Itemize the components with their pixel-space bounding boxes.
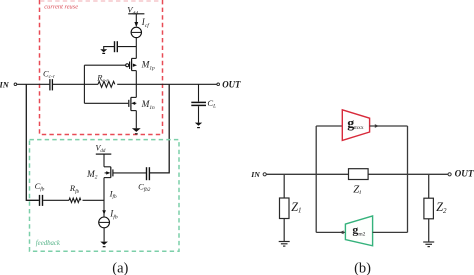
- caption (b): [354, 261, 371, 275]
- wire IN node down to C_fb: [26, 84, 39, 200]
- svg-text:Zi: Zi: [353, 184, 361, 197]
- label g_m2: [352, 223, 365, 238]
- amplifier g_mxx: [342, 110, 369, 141]
- wire M1p drain to output node: [135, 71, 137, 85]
- wire top branch left: [316, 125, 342, 127]
- svg-text:Z2: Z2: [436, 200, 447, 215]
- resistor R_fb: [69, 198, 81, 202]
- wire source node to bypass capacitor: [118, 46, 136, 48]
- label IN: [0, 80, 10, 89]
- label feedback: [36, 240, 61, 247]
- label C_c-r: [43, 68, 56, 80]
- capacitor C_L: [191, 102, 206, 105]
- label V_dd top: [127, 5, 138, 17]
- svg-text:Vdd: Vdd: [96, 143, 106, 154]
- svg-text:M1p: M1p: [141, 61, 155, 72]
- svg-text:Ifb: Ifb: [109, 209, 118, 221]
- resistor R_c-r: [98, 81, 115, 87]
- wire C_fb to R_fb: [43, 199, 69, 201]
- wire M2 gate to C_fb2: [113, 172, 146, 174]
- svg-text:Rc-r: Rc-r: [96, 72, 109, 84]
- label IN b: [250, 170, 260, 179]
- wire M1n source to ground: [135, 111, 137, 129]
- wire R_fb to I_fb node: [83, 199, 105, 201]
- svg-text:Z1: Z1: [291, 200, 301, 215]
- wire output node to M1n drain: [135, 84, 137, 97]
- label I_fb source: [109, 209, 118, 221]
- wire arrow into current source: [102, 210, 106, 215]
- svg-text:Cfb2: Cfb2: [138, 181, 151, 193]
- label C_fb2: [138, 181, 151, 193]
- ground under M1n: [132, 128, 141, 134]
- label M_1p: [141, 61, 155, 72]
- wire left branch vertical: [315, 126, 317, 232]
- wire main line b: [266, 173, 448, 175]
- node OUT terminal b: [448, 173, 451, 176]
- label C_fb: [35, 181, 45, 193]
- transistor M2: [104, 154, 113, 217]
- svg-text:M1n: M1n: [141, 100, 155, 111]
- ground under Z2: [423, 242, 434, 247]
- amplifier g_m2: [345, 216, 372, 246]
- wire OUT line to C_L: [198, 84, 200, 101]
- ground at bypass capacitor: [100, 49, 107, 53]
- wire OUT node down to C_fb2: [150, 84, 169, 173]
- label Z_i: [353, 184, 361, 197]
- node gate rail: [83, 65, 85, 103]
- svg-text:m2: m2: [358, 231, 365, 237]
- wire capacitor to ground: [104, 47, 114, 50]
- transistor M1p: [84, 58, 137, 70]
- wire Z1 branch: [283, 174, 285, 241]
- node IN terminal b: [263, 173, 266, 176]
- svg-text:Cc-r: Cc-r: [43, 68, 56, 80]
- capacitor C_fb: [40, 195, 43, 206]
- transistor M1n: [84, 97, 136, 110]
- wire C_c-r to R_c-r: [53, 83, 98, 85]
- current source I_cf: [131, 27, 141, 37]
- ground under I_fb: [100, 242, 108, 247]
- node OUT terminal: [217, 83, 220, 86]
- svg-text:Cfb: Cfb: [35, 181, 45, 193]
- svg-text:mxx: mxx: [354, 125, 364, 131]
- wire top branch right with arrow: [370, 124, 408, 128]
- wire R_c-r to OUT: [117, 83, 217, 85]
- label current reuse: [44, 3, 78, 10]
- svg-text:CL: CL: [207, 98, 216, 110]
- wire current source to M1p source: [135, 38, 137, 59]
- svg-text:IN: IN: [0, 80, 10, 89]
- svg-text:Rfb: Rfb: [69, 183, 80, 195]
- svg-text:Icf: Icf: [141, 17, 150, 29]
- label M_2: [86, 170, 98, 181]
- svg-text:current reuse: current reuse: [44, 3, 78, 10]
- label g_mxx: [347, 117, 364, 132]
- label Z_1: [291, 200, 301, 215]
- wire C_L to ground: [198, 106, 200, 122]
- wire bottom branch right: [373, 231, 408, 233]
- wire right branch vertical: [407, 126, 409, 232]
- svg-text:feedback: feedback: [36, 240, 61, 247]
- wire Vdd to current source with arrow: [134, 14, 138, 27]
- capacitor bypass at M1p source: [115, 41, 118, 52]
- caption (a): [112, 261, 128, 275]
- wire I_fb to ground: [103, 228, 105, 242]
- current-reuse dashed box: [40, 0, 163, 135]
- impedance Z2: [424, 198, 434, 219]
- wire bottom branch left with arrow: [316, 231, 345, 235]
- impedance Zi: [349, 169, 369, 180]
- node IN terminal: [14, 83, 17, 86]
- label V_dd feedback: [96, 143, 106, 154]
- wire Z2 branch: [428, 174, 430, 242]
- svg-text:(a): (a): [112, 261, 128, 275]
- label OUT: [222, 79, 241, 89]
- wire IN to C_c-r: [17, 83, 50, 85]
- label OUT b: [455, 168, 474, 178]
- svg-text:IN: IN: [250, 170, 260, 179]
- label R_fb: [69, 183, 80, 195]
- svg-text:Ifb: Ifb: [109, 188, 117, 200]
- svg-text:OUT: OUT: [455, 168, 474, 178]
- impedance Z1: [280, 198, 290, 219]
- svg-text:M2: M2: [86, 170, 98, 181]
- svg-text:OUT: OUT: [222, 79, 241, 89]
- label I_fb wire current: [109, 188, 117, 200]
- supply V_dd (top): [128, 13, 144, 15]
- label M_1n: [141, 100, 155, 111]
- current source I_fb: [99, 217, 110, 228]
- capacitor C_fb2: [147, 167, 150, 180]
- ground under C_L: [195, 123, 202, 128]
- capacitor C_c-r: [50, 79, 53, 90]
- feedback dashed box: [30, 140, 180, 252]
- svg-text:(b): (b): [354, 261, 371, 275]
- label I_cf: [141, 17, 150, 29]
- ground under Z1: [279, 242, 290, 247]
- label C_L: [207, 98, 216, 110]
- label Z_2: [436, 200, 447, 215]
- supply V_dd (feedback): [96, 153, 112, 155]
- label R_c-r: [96, 72, 109, 84]
